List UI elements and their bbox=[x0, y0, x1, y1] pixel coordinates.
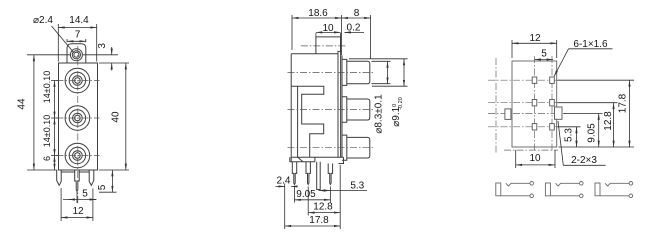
svg-text:12.8: 12.8 bbox=[313, 202, 333, 213]
svg-text:9.05: 9.05 bbox=[296, 189, 316, 200]
svg-text:6-1×1.6: 6-1×1.6 bbox=[573, 39, 608, 50]
svg-text:5: 5 bbox=[541, 49, 547, 60]
svg-text:10: 10 bbox=[322, 23, 334, 34]
svg-text:44: 44 bbox=[17, 98, 28, 110]
svg-text:0.2: 0.2 bbox=[347, 23, 361, 34]
svg-text:5.3: 5.3 bbox=[350, 181, 364, 192]
svg-text:3: 3 bbox=[97, 43, 108, 49]
svg-text:⌀9.10-0.20: ⌀9.10-0.20 bbox=[391, 97, 404, 127]
svg-text:14±0.10: 14±0.10 bbox=[42, 115, 52, 147]
svg-text:12.8: 12.8 bbox=[603, 111, 614, 131]
svg-text:5: 5 bbox=[97, 184, 108, 190]
svg-text:12: 12 bbox=[72, 206, 84, 217]
svg-text:5: 5 bbox=[82, 188, 88, 199]
svg-text:14±0.10: 14±0.10 bbox=[42, 71, 52, 103]
svg-text:7: 7 bbox=[75, 30, 81, 41]
svg-text:17.8: 17.8 bbox=[309, 215, 329, 226]
svg-text:6: 6 bbox=[42, 156, 52, 161]
svg-text:9.05: 9.05 bbox=[587, 123, 598, 143]
svg-text:5.3: 5.3 bbox=[564, 128, 575, 142]
svg-text:14.4: 14.4 bbox=[69, 15, 89, 26]
svg-text:12: 12 bbox=[529, 33, 541, 44]
svg-text:⌀2.4: ⌀2.4 bbox=[33, 15, 53, 26]
svg-text:2-2×3: 2-2×3 bbox=[571, 155, 597, 166]
svg-text:2.4: 2.4 bbox=[277, 176, 291, 187]
svg-text:10: 10 bbox=[529, 153, 541, 164]
svg-text:40: 40 bbox=[111, 111, 122, 123]
svg-text:8: 8 bbox=[354, 8, 360, 19]
svg-text:⌀8.3±0.1: ⌀8.3±0.1 bbox=[374, 94, 385, 134]
svg-text:17.8: 17.8 bbox=[618, 93, 629, 113]
svg-text:18.6: 18.6 bbox=[308, 8, 328, 19]
